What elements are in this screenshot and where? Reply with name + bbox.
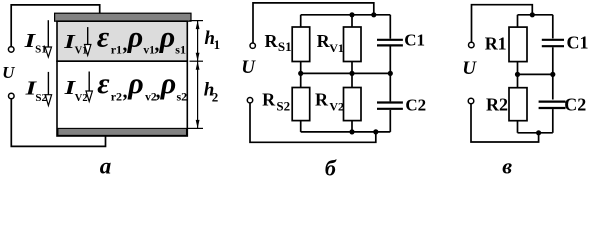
svg-text:б: б — [325, 156, 337, 181]
wire stub RS2 top — [300, 73, 302, 87]
wire stub RS1 top — [300, 15, 302, 27]
svg-text:ε: ε — [97, 67, 110, 100]
wire stub R1 top — [517, 15, 519, 27]
wire bottom rail (figure v) — [518, 132, 553, 134]
node dot middle center — [349, 71, 354, 76]
dielectric layer 2 — [57, 61, 187, 136]
label IS2 — [24, 78, 47, 104]
terminal top (figure v) — [469, 42, 475, 48]
dimension tick at plate 2 top — [188, 127, 203, 129]
current arrow IV1 — [85, 27, 91, 55]
current arrow IV2 — [86, 72, 92, 102]
label IV2 — [63, 77, 87, 104]
wire middle node rail — [301, 72, 391, 74]
svg-text:U: U — [2, 63, 15, 82]
wire top from terminal to rail — [253, 3, 374, 43]
label h2 — [204, 80, 219, 105]
node dot top feed — [371, 12, 376, 17]
svg-text:2: 2 — [212, 90, 219, 105]
node dot top (figure v) — [530, 12, 535, 17]
figure label a — [100, 153, 112, 178]
capacitor C2 (figure v) — [539, 74, 566, 132]
wire top-left from terminal to top electrode — [11, 5, 100, 47]
wire top node rail (figure v) — [518, 14, 553, 16]
svg-text:S2: S2 — [35, 92, 47, 104]
label h1 — [204, 28, 220, 52]
bottom electrode plate — [58, 128, 187, 135]
svg-text:v2: v2 — [145, 91, 157, 103]
node U label (figure a) — [2, 63, 15, 82]
node U label (figure b) — [241, 57, 256, 78]
svg-text:v1: v1 — [143, 44, 155, 56]
svg-text:R: R — [265, 31, 279, 51]
label RS2 — [262, 89, 290, 113]
label IV1 — [63, 31, 87, 57]
svg-text:C2: C2 — [564, 95, 586, 115]
svg-text:R2: R2 — [486, 95, 508, 115]
wire stub R2 bottom — [517, 121, 519, 133]
svg-text:R: R — [315, 89, 329, 109]
wire top node rail — [301, 14, 391, 16]
svg-text:C1: C1 — [404, 31, 425, 50]
wire bottom-left from terminal to bottom electrode — [11, 99, 105, 147]
dimension tick at plate 1 bottom — [190, 20, 204, 22]
dielectric layer 1 — [57, 21, 187, 61]
resistor RV2 — [344, 88, 362, 121]
node dot top RV1 — [349, 12, 354, 17]
svg-text:R: R — [262, 89, 276, 109]
capacitor C1 (figure v) — [542, 15, 564, 75]
label C2 (figure b) — [405, 96, 426, 115]
wire bottom node rail — [301, 131, 391, 133]
dimension tick at interface — [190, 60, 204, 62]
svg-text:R1: R1 — [485, 33, 507, 53]
svg-text:S2: S2 — [276, 99, 290, 114]
figure label b — [325, 156, 337, 181]
capacitor C1 (figure b) — [377, 15, 403, 74]
svg-text:V2: V2 — [75, 93, 88, 104]
svg-text:а: а — [100, 153, 112, 178]
svg-text:в: в — [502, 153, 512, 178]
wire stub RS1 bottom — [300, 62, 302, 74]
node dot middle left (figure v) — [515, 72, 520, 77]
resistor R1 — [509, 27, 527, 62]
node dot middle left — [298, 71, 303, 76]
node dot bottom RV2 — [349, 129, 354, 134]
wire stub RV1 bottom — [351, 62, 353, 74]
terminal top (figure b) — [250, 43, 255, 48]
wire top from terminal to node (figure v) — [472, 5, 533, 43]
layer 1 material properties label — [97, 20, 186, 56]
resistor RV1 — [344, 27, 362, 62]
label RS1 — [265, 31, 292, 54]
figure label v — [502, 153, 512, 178]
node U label (figure v) — [462, 58, 477, 79]
svg-text:1: 1 — [214, 37, 221, 52]
svg-text:S1: S1 — [278, 39, 292, 54]
svg-text:V1: V1 — [75, 46, 88, 57]
wire stub R2 top — [517, 74, 519, 87]
wire middle rail (figure v) — [518, 73, 553, 75]
svg-text:r1: r1 — [111, 42, 122, 56]
label RV2 — [315, 89, 344, 113]
wire stub RV1 top — [351, 15, 353, 27]
dimension line h2 — [196, 61, 200, 128]
terminal top-left — [8, 47, 14, 53]
svg-text:V2: V2 — [329, 100, 344, 114]
top electrode plate — [55, 13, 191, 21]
label R1 — [485, 33, 507, 53]
terminal bottom (figure v) — [468, 98, 474, 104]
resistor RS2 — [292, 88, 310, 121]
svg-text:s2: s2 — [177, 89, 188, 103]
svg-text:C1: C1 — [567, 32, 589, 52]
node dot bottom feed — [373, 129, 378, 134]
node dot bottom (figure v) — [536, 130, 541, 135]
current arrow IS2 — [45, 72, 51, 106]
label C1 (figure v) — [567, 32, 589, 52]
svg-text:r2: r2 — [111, 89, 122, 103]
wire stub RS2 bottom — [300, 121, 302, 132]
svg-text:ρ: ρ — [160, 67, 176, 100]
svg-text:S1: S1 — [35, 43, 47, 55]
label RV1 — [317, 31, 344, 55]
svg-text:V1: V1 — [329, 41, 344, 55]
svg-text:ρ: ρ — [127, 67, 143, 100]
svg-text:s1: s1 — [175, 42, 186, 56]
wire bottom from terminal to bottom rail — [250, 103, 376, 143]
wire stub RV2 bottom — [351, 121, 353, 132]
label C1 (figure b) — [404, 31, 425, 50]
resistor RS1 — [292, 27, 310, 62]
layer 2 material properties label — [97, 67, 187, 103]
terminal bottom-left — [9, 93, 15, 99]
svg-text:ρ: ρ — [127, 20, 143, 53]
wire bottom from terminal to bottom rail (figure v) — [471, 104, 539, 142]
label C2 (figure v) — [564, 95, 586, 115]
svg-text:ε: ε — [97, 20, 110, 53]
capacitor C2 (figure b) — [377, 73, 403, 131]
current arrow IS1 — [45, 20, 51, 57]
node dot middle right — [388, 71, 393, 76]
label IS1 — [23, 30, 46, 56]
wire stub RV2 top — [351, 73, 353, 87]
svg-text:C2: C2 — [405, 96, 426, 115]
terminal bottom (figure b) — [247, 98, 252, 103]
svg-text:U: U — [462, 58, 477, 79]
svg-text:ρ: ρ — [159, 20, 175, 53]
resistor R2 — [509, 88, 527, 121]
label R2 — [486, 95, 508, 115]
wire stub R1 bottom — [517, 62, 519, 75]
node dot middle right (figure v) — [550, 72, 555, 77]
svg-text:U: U — [241, 57, 256, 78]
dimension line h1 — [196, 21, 200, 62]
